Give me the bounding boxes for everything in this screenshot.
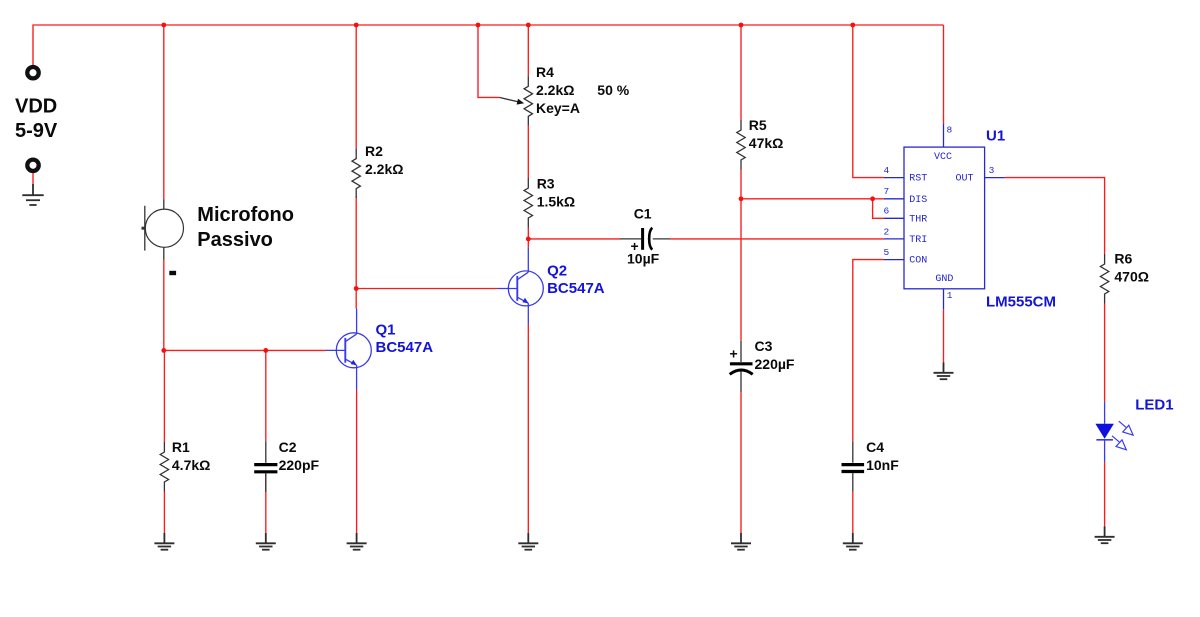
pin 3 OUT lead <box>985 177 1005 179</box>
pin 1 GND lead <box>943 289 945 310</box>
pin 5 CON lead <box>884 259 904 261</box>
resistor R6 <box>1100 254 1108 304</box>
wire Q1 emitter down <box>356 390 358 534</box>
svg-text:4.7kΩ: 4.7kΩ <box>172 457 210 473</box>
ground C3 <box>731 533 751 550</box>
pin 7 DIS lead <box>884 198 904 200</box>
ground R1 <box>154 533 174 550</box>
svg-text:3: 3 <box>989 165 995 176</box>
wire VDD terminal2 to ground stub <box>32 173 34 185</box>
junction top rail at pot branch <box>476 23 481 28</box>
LED light arrow lower <box>1112 436 1126 450</box>
wire DIS row <box>741 198 884 200</box>
junction top rail at RST column <box>850 23 855 28</box>
terminal VDD return <box>27 160 38 171</box>
svg-text:Q2: Q2 <box>547 262 567 279</box>
svg-text:VDD: VDD <box>15 96 57 118</box>
wire top power rail <box>33 25 944 65</box>
svg-text:6: 6 <box>884 206 890 217</box>
junction node base row mic <box>161 348 166 353</box>
svg-text:7: 7 <box>884 186 890 197</box>
pin 6 THR lead <box>884 217 904 219</box>
svg-text:BC547A: BC547A <box>547 280 605 297</box>
pin 4 RST lead <box>884 177 904 179</box>
transistor Q1 <box>326 309 372 391</box>
svg-text:BC547A: BC547A <box>376 339 434 356</box>
svg-text:Q1: Q1 <box>376 321 396 338</box>
svg-text:10nF: 10nF <box>866 457 899 473</box>
svg-text:+: + <box>730 346 738 362</box>
svg-text:5: 5 <box>884 247 890 258</box>
junction top rail at R5 column <box>739 23 744 28</box>
junction node DIS-THR <box>870 196 875 201</box>
svg-text:Microfono: Microfono <box>197 204 294 226</box>
transistor Q2 <box>498 248 544 325</box>
svg-text:R3: R3 <box>537 176 555 192</box>
svg-text:R5: R5 <box>749 117 767 133</box>
svg-text:4: 4 <box>884 165 890 176</box>
capacitor C2 <box>254 441 277 492</box>
wire LED to ground <box>1104 462 1106 527</box>
wire R5 top <box>740 25 742 120</box>
svg-text:C2: C2 <box>279 439 297 455</box>
svg-text:47kΩ: 47kΩ <box>749 135 784 151</box>
wire C1 node to C1 left lead <box>528 238 620 240</box>
capacitor C1 <box>620 228 670 250</box>
svg-text:R1: R1 <box>172 439 190 455</box>
ground C4 <box>843 533 863 550</box>
capacitor C3 <box>730 341 753 392</box>
svg-text:LM555CM: LM555CM <box>986 294 1056 311</box>
wire CON to C4 <box>853 260 884 442</box>
svg-text:DIS: DIS <box>909 195 927 206</box>
wire R6 to LED <box>1104 304 1106 403</box>
resistor R2 <box>352 149 360 198</box>
ground LED <box>1095 527 1115 544</box>
junction top rail at R2 column <box>354 23 359 28</box>
svg-text:5-9V: 5-9V <box>15 120 58 142</box>
svg-text:LED1: LED1 <box>1135 396 1173 413</box>
svg-text:220µF: 220µF <box>755 356 795 372</box>
svg-text:C3: C3 <box>755 338 773 354</box>
svg-text:R2: R2 <box>365 143 383 159</box>
wire base row to Q1 <box>164 349 326 351</box>
svg-text:THR: THR <box>909 214 927 225</box>
svg-text:U1: U1 <box>986 127 1005 144</box>
U1 pin leads <box>884 123 1005 309</box>
svg-text:50 %: 50 % <box>597 82 629 98</box>
op-amp U1 LM555CM box <box>904 147 985 289</box>
svg-text:220pF: 220pF <box>279 457 320 473</box>
junction node base row C2 <box>263 348 268 353</box>
potentiometer R4 <box>524 76 532 125</box>
wire VCC pin column <box>943 25 945 123</box>
wire R3 to C1 node <box>527 228 529 248</box>
wire Q2 emitter down <box>527 325 529 534</box>
junction node DIS <box>739 196 744 201</box>
junction top rail at R4 column <box>526 23 531 28</box>
svg-text:RST: RST <box>909 174 927 185</box>
ground C2 <box>256 533 276 550</box>
pin 8 VCC lead <box>943 123 945 147</box>
wire R4 top <box>527 25 529 76</box>
resistor R3 <box>524 178 532 228</box>
wire R2 bottom to Q1 collector node <box>355 196 357 308</box>
svg-text:TRI: TRI <box>909 235 927 246</box>
wire C4 bottom <box>852 492 854 534</box>
ground under VDD terminal <box>22 184 43 205</box>
svg-text:C4: C4 <box>866 439 884 455</box>
svg-text:Passivo: Passivo <box>197 229 273 251</box>
wire C3 bottom <box>740 392 742 534</box>
svg-text:1: 1 <box>947 290 953 301</box>
ground Q1 emitter <box>347 533 367 550</box>
ground 555 pin1 <box>934 363 954 380</box>
terminal VDD positive <box>27 67 38 78</box>
wire Q1 collector node to Q2 base <box>356 288 497 290</box>
svg-text:2.2kΩ: 2.2kΩ <box>365 161 403 177</box>
wire pot wiper branch <box>478 25 499 97</box>
LED LED1 <box>1095 402 1133 462</box>
wire R4 to R3 <box>527 126 529 178</box>
wire R2 top <box>355 25 357 149</box>
svg-text:8: 8 <box>947 125 953 136</box>
junction top rail at mic column <box>161 23 166 28</box>
capacitor C4 <box>842 441 865 492</box>
potentiometer R4 wiper arrow <box>499 97 524 104</box>
wire OUT to R6 <box>1005 178 1105 254</box>
svg-text:470Ω: 470Ω <box>1114 269 1149 285</box>
svg-text:GND: GND <box>935 274 953 285</box>
LED light arrow upper <box>1119 421 1133 435</box>
wire mic bottom to base node <box>163 260 165 351</box>
microphone body <box>142 200 184 260</box>
svg-text:OUT: OUT <box>956 174 974 185</box>
wire mic column top <box>163 25 165 200</box>
junction node C1/R3/Q2 <box>526 237 531 242</box>
wire DIS node to C3 <box>740 199 742 341</box>
svg-text:R6: R6 <box>1114 251 1132 267</box>
svg-text:10µF: 10µF <box>627 251 660 267</box>
junction node Q1 collector <box>354 286 359 291</box>
svg-text:R4: R4 <box>536 64 554 80</box>
wire R5 bottom to DIS node <box>740 170 742 199</box>
ground Q2 emitter <box>518 533 538 550</box>
resistor R5 <box>737 120 745 170</box>
resistor R1 <box>160 442 168 492</box>
svg-text:Key=A: Key=A <box>536 100 580 116</box>
svg-text:VCC: VCC <box>934 152 952 163</box>
wire R1 branch lower <box>163 492 165 534</box>
svg-text:C1: C1 <box>634 206 652 222</box>
wire 555 GND pin to ground <box>943 309 945 363</box>
svg-text:CON: CON <box>909 256 927 267</box>
wire RST from rail <box>853 25 884 178</box>
wire C1 right lead to TRI pin <box>670 238 884 240</box>
svg-text:1.5kΩ: 1.5kΩ <box>537 194 575 210</box>
wire C2 branch upper <box>265 350 267 441</box>
svg-text:2.2kΩ: 2.2kΩ <box>536 82 574 98</box>
svg-text:2: 2 <box>884 226 890 237</box>
pin 2 TRI lead <box>884 238 904 240</box>
wire THR elbow <box>873 199 884 219</box>
wire C2 branch lower <box>265 473 267 533</box>
wire R1 branch upper <box>163 350 165 442</box>
label mic minus <box>169 271 176 275</box>
